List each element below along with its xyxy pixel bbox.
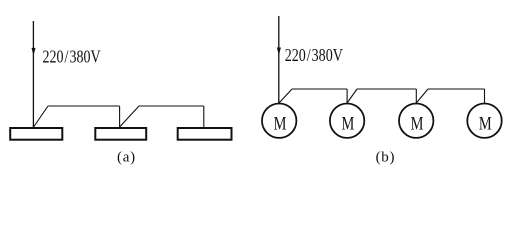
wire: drop to load 3 (a) [203, 106, 205, 127]
wire: diagonal from motor M2 to bus 2 (b) [347, 89, 357, 103]
motor M3 circle [399, 104, 433, 138]
load 3 rectangle (a) [178, 128, 232, 140]
wire: bus segment 2 (b) [357, 88, 416, 90]
supply feeder wire (b) [278, 16, 280, 103]
svg-text:M: M [341, 113, 354, 134]
svg-text:(a): (a) [117, 150, 136, 166]
wire: drop to motor M2 (b) [346, 89, 348, 103]
svg-text:220/380V: 220/380V [43, 48, 101, 67]
wire: bus segment 2 (a) [139, 105, 204, 107]
wire: diagonal from load 2 to bus 2 (a) [120, 106, 139, 127]
svg-text:M: M [274, 113, 287, 134]
svg-text:M: M [479, 113, 492, 134]
supply feeder wire (a) [32, 21, 34, 127]
supply arrowhead (b) [277, 48, 281, 56]
wire: drop to motor M4 (b) [484, 89, 486, 103]
svg-text:220/380V: 220/380V [285, 47, 343, 66]
load 2 rectangle (a) [95, 128, 146, 140]
wire: diagonal from motor M1 to bus 1 (b) [279, 89, 292, 103]
wire: drop to load 2 (a) [119, 106, 121, 127]
motor M1 circle [262, 104, 296, 138]
wire: drop to motor M3 (b) [415, 89, 417, 103]
load 1 rectangle (a) [10, 128, 62, 140]
svg-text:(b): (b) [376, 150, 396, 166]
wire: diagonal from load 1 to bus 1 (a) [34, 106, 48, 127]
wire: bus segment 1 (a) [48, 105, 120, 107]
supply arrowhead (a) [32, 48, 36, 56]
svg-text:M: M [411, 113, 424, 134]
wire: bus segment 3 (b) [428, 88, 485, 90]
motor M4 circle [467, 104, 501, 138]
wire: bus segment 1 (b) [292, 88, 347, 90]
wire: diagonal from motor M3 to bus 3 (b) [416, 89, 428, 103]
motor M2 circle [330, 104, 364, 138]
